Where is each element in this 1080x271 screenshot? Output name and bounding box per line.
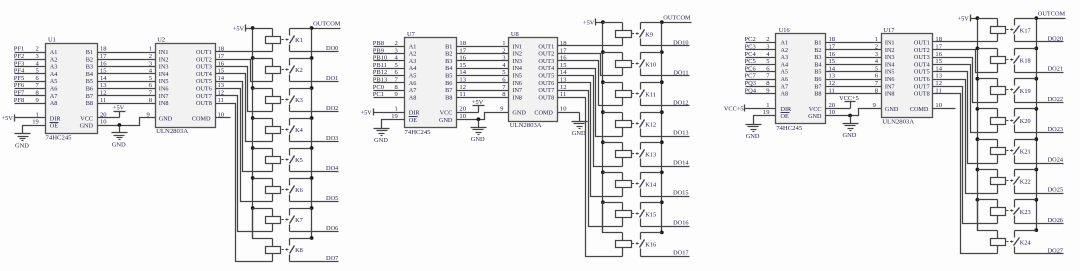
node OUTCOM bus tap K3	[310, 86, 314, 90]
wire U2 OUT3 pin 16 to relay K3 coil	[216, 60, 273, 111]
svg-text:GND: GND	[843, 132, 857, 139]
svg-text:OUT1: OUT1	[538, 43, 554, 50]
node OUTCOM bus tap K6	[310, 176, 314, 180]
wire U17 OUT8 pin 11 to relay K24 coil	[933, 87, 998, 253]
wire port PB12 to U7 pin 6 (A5)	[373, 69, 405, 76]
svg-text:B7: B7	[86, 93, 93, 100]
svg-text:PB10: PB10	[373, 55, 387, 62]
wire U7 B6 pin 13 to U8 IN6 pin 6	[457, 77, 509, 84]
svg-text:DIR: DIR	[50, 115, 62, 122]
wire U16 B7 pin 12 to U17 IN7 pin 7	[826, 80, 882, 87]
svg-text:K2: K2	[295, 67, 303, 74]
wire U8 COMD pin 10	[558, 106, 580, 113]
svg-text:A7: A7	[781, 83, 789, 90]
relay coil K22	[978, 170, 1006, 194]
node OUTCOM bus tap K14	[660, 170, 664, 174]
svg-text:12: 12	[100, 90, 107, 97]
svg-text:14: 14	[829, 65, 836, 72]
wire port PB13 to U7 pin 7 (A6)	[373, 77, 405, 84]
svg-text:14: 14	[218, 75, 225, 82]
node OUTCOM bus tap K20	[1034, 107, 1038, 111]
wire port PF8 to U1 pin 9 (A8)	[14, 97, 46, 104]
wire U1 B8 pin 11 to U2 IN8 pin 8	[98, 97, 156, 104]
svg-text:15: 15	[100, 68, 107, 75]
svg-text:U17: U17	[883, 27, 895, 34]
svg-text:2: 2	[766, 36, 769, 43]
svg-text:15: 15	[935, 58, 942, 65]
node OUTCOM bus tap K5	[310, 146, 314, 150]
wire U16 B3 pin 16 to U17 IN3 pin 3	[826, 51, 882, 58]
svg-text:B5: B5	[445, 73, 452, 80]
wire U1 B5 pin 14 to U2 IN5 pin 5	[98, 75, 156, 82]
wire output DO17	[641, 250, 690, 257]
wire port PB9 to U7 pin 3 (A2)	[373, 47, 405, 54]
svg-text:K8: K8	[295, 247, 303, 254]
svg-text:15: 15	[560, 62, 567, 69]
relay coil K2	[253, 59, 281, 82]
wire output DO11	[641, 69, 690, 76]
svg-text:OUTCOM: OUTCOM	[1038, 10, 1066, 17]
node OUTCOM bus tap K7	[310, 206, 314, 210]
svg-text:OUT5: OUT5	[196, 78, 212, 85]
svg-text:B5: B5	[86, 78, 93, 85]
svg-text:1: 1	[502, 40, 505, 47]
node OUTCOM bus tap K4	[310, 116, 314, 120]
svg-text:VCC: VCC	[809, 106, 822, 113]
wire OUTCOM bus vertical	[1036, 19, 1038, 231]
svg-text:2: 2	[395, 40, 398, 47]
svg-text:VCC+5: VCC+5	[839, 95, 859, 102]
svg-text:DIR: DIR	[781, 106, 793, 113]
svg-text:17: 17	[829, 44, 836, 51]
svg-text:IN8: IN8	[512, 94, 522, 101]
svg-text:B3: B3	[86, 64, 93, 71]
svg-text:B6: B6	[445, 80, 452, 87]
node OUTCOM bus tap K22	[1034, 168, 1038, 172]
wire U1 B7 pin 12 to U2 IN7 pin 7	[98, 90, 156, 97]
wire output DO25	[1015, 187, 1064, 194]
wire U16 B2 pin 17 to U17 IN2 pin 2	[826, 44, 882, 51]
relay coil K17	[978, 19, 1006, 42]
svg-text:GND: GND	[15, 143, 29, 150]
svg-text:VCC+5: VCC+5	[724, 106, 744, 113]
svg-text:U1: U1	[48, 37, 56, 44]
wire U17 OUT6 pin 13 to relay K22 coil	[933, 73, 998, 194]
svg-text:11: 11	[459, 91, 465, 98]
svg-text:PF2: PF2	[14, 53, 24, 60]
svg-text:DO11: DO11	[673, 69, 688, 76]
svg-text:12: 12	[459, 84, 466, 91]
wire output DO16	[641, 220, 690, 227]
node +5V bus tap K10	[601, 50, 605, 54]
svg-text:IN6: IN6	[159, 86, 169, 93]
svg-text:10: 10	[935, 102, 942, 109]
svg-text:PB8: PB8	[373, 40, 384, 47]
svg-text:A6: A6	[409, 80, 417, 87]
node OUTCOM bus tap K15	[660, 200, 664, 204]
svg-text:A8: A8	[50, 100, 58, 107]
svg-text:14: 14	[935, 65, 942, 72]
svg-text:DO0: DO0	[326, 45, 338, 52]
svg-text:B4: B4	[814, 61, 821, 68]
wire port PC4 to U16 pin 4 (A3)	[745, 51, 776, 58]
svg-text:1: 1	[36, 111, 39, 118]
wire U17 OUT7 pin 12 to relay K23 coil	[933, 80, 998, 224]
svg-text:DO26: DO26	[1048, 217, 1063, 224]
svg-text:OUT8: OUT8	[914, 91, 930, 98]
wire U2 OUT8 pin 11 to relay K8 coil	[216, 97, 273, 262]
wire U16 B4 pin 15 to U17 IN4 pin 4	[826, 58, 882, 65]
svg-text:IN5: IN5	[159, 78, 169, 85]
svg-text:B7: B7	[445, 87, 452, 94]
svg-text:B6: B6	[86, 86, 93, 93]
svg-text:K19: K19	[1020, 88, 1031, 95]
svg-text:15: 15	[218, 68, 225, 75]
wire U2 OUT5 pin 14 to relay K5 coil	[216, 75, 273, 172]
driver IC U8 ULN2803A	[509, 31, 558, 129]
svg-text:PB11: PB11	[373, 62, 387, 69]
wire U8 OUT4 pin 15 to relay K12 coil	[558, 62, 623, 137]
svg-text:PB9: PB9	[373, 47, 384, 54]
svg-text:K1: K1	[295, 37, 303, 44]
svg-text:10: 10	[100, 119, 107, 126]
node OUTCOM bus tap K1	[310, 26, 314, 30]
svg-text:IN1: IN1	[159, 49, 169, 56]
wire U17 OUT3 pin 16 to relay K19 coil	[933, 51, 998, 103]
svg-text:K14: K14	[645, 182, 657, 189]
ground at U7 GND pin	[471, 128, 487, 144]
svg-text:B1: B1	[86, 49, 93, 56]
wire U2 OUT6 pin 13 to relay K6 coil	[216, 82, 273, 201]
svg-text:OE: OE	[409, 117, 417, 124]
wire U8 OUT2 pin 17 to relay K10 coil	[558, 47, 623, 75]
svg-text:IN8: IN8	[885, 91, 895, 98]
svg-text:OE: OE	[50, 123, 58, 130]
svg-text:11: 11	[935, 87, 941, 94]
wire U1 B2 pin 17 to U2 IN2 pin 2	[98, 53, 156, 60]
wire U7 B2 pin 17 to U8 IN2 pin 2	[457, 47, 509, 54]
relay contact K11	[632, 83, 662, 106]
relay coil K12	[603, 113, 632, 137]
net label OUTCOM wire	[312, 20, 341, 28]
svg-text:12: 12	[560, 84, 567, 91]
wire output DO10	[641, 39, 690, 46]
relay contact K16	[632, 233, 662, 257]
svg-text:18: 18	[459, 40, 466, 47]
node +5V bus tap K14	[601, 170, 605, 174]
svg-text:DO15: DO15	[673, 190, 688, 197]
svg-text:GND: GND	[439, 117, 453, 124]
svg-text:IN7: IN7	[512, 87, 522, 94]
svg-text:15: 15	[829, 58, 836, 65]
svg-text:VCC: VCC	[80, 115, 93, 122]
relay contact K1	[282, 29, 312, 52]
svg-text:13: 13	[218, 82, 225, 89]
node +5V bus tap K18	[976, 47, 980, 51]
relay coil K16	[603, 203, 632, 257]
svg-text:IN6: IN6	[885, 76, 895, 83]
svg-text:74HC245: 74HC245	[46, 135, 73, 142]
svg-text:PB13: PB13	[373, 77, 387, 84]
svg-text:2: 2	[875, 44, 878, 51]
svg-text:A7: A7	[50, 93, 58, 100]
svg-text:K9: K9	[645, 31, 653, 38]
svg-text:A3: A3	[409, 58, 417, 65]
svg-text:ULN2803A: ULN2803A	[156, 128, 188, 135]
relay coil K18	[978, 49, 1006, 73]
svg-text:U16: U16	[779, 27, 790, 34]
wire port PQ3 to U16 pin 8 (A7)	[745, 80, 776, 87]
svg-text:IN2: IN2	[159, 56, 169, 63]
svg-text:10: 10	[829, 109, 836, 116]
svg-text:IN7: IN7	[159, 93, 169, 100]
wire port PQ4 to U16 pin 9 (A8)	[745, 87, 776, 94]
svg-text:OUT8: OUT8	[196, 100, 212, 107]
wire port PF7 to U1 pin 8 (A7)	[14, 90, 46, 97]
svg-text:K11: K11	[645, 91, 656, 98]
wire output DO7	[290, 255, 339, 262]
power VCC+5 to U16 DIR pin 1	[724, 102, 776, 113]
wire U8 COMD to ground	[579, 113, 581, 122]
wire U8 OUT7 pin 12 to relay K15 coil	[558, 84, 623, 227]
svg-text:K6: K6	[295, 187, 303, 194]
svg-text:B4: B4	[445, 65, 452, 72]
svg-text:2: 2	[149, 53, 152, 60]
svg-text:DIR: DIR	[409, 110, 421, 117]
relay coil K23	[978, 200, 1006, 224]
node +5V bus tap K22	[976, 168, 980, 172]
wire U7 B8 pin 11 to U8 IN8 pin 8	[457, 91, 509, 98]
svg-text:PC5: PC5	[745, 58, 756, 65]
wire port PF1 to U1 pin 2 (A1)	[14, 46, 46, 53]
svg-text:18: 18	[218, 46, 225, 53]
relay contact K23	[1006, 200, 1036, 224]
wire U16 B5 pin 14 to U17 IN5 pin 5	[826, 65, 882, 72]
wire +5V bus vertical	[977, 19, 979, 231]
wire port PF4 to U1 pin 5 (A4)	[14, 68, 46, 75]
svg-text:DO1: DO1	[326, 75, 338, 82]
svg-text:OUT3: OUT3	[196, 64, 212, 71]
svg-text:COMD: COMD	[534, 110, 553, 117]
svg-text:K13: K13	[645, 152, 656, 159]
svg-text:A1: A1	[781, 40, 789, 47]
node +5V bus tap K13	[601, 140, 605, 144]
wire output DO24	[1015, 156, 1064, 163]
svg-text:17: 17	[935, 44, 942, 51]
net label OUTCOM wire	[1037, 10, 1066, 18]
node +5V bus tap K5	[251, 146, 255, 150]
svg-text:IN3: IN3	[512, 58, 522, 65]
svg-text:A6: A6	[50, 86, 58, 93]
node GND junction	[477, 117, 481, 121]
relay coil K11	[603, 83, 632, 106]
node GND junction	[118, 123, 122, 127]
svg-text:A8: A8	[781, 91, 789, 98]
relay contact K9	[632, 23, 662, 46]
svg-text:15: 15	[459, 62, 466, 69]
power +5V at U16 VCC pin 20	[826, 95, 859, 109]
relay contact K17	[1006, 19, 1036, 42]
wire output DO12	[641, 99, 690, 106]
svg-text:A4: A4	[50, 71, 58, 78]
svg-text:OUT7: OUT7	[914, 83, 930, 90]
node +5V bus tap K3	[251, 86, 255, 90]
relay coil K21	[978, 140, 1006, 164]
svg-text:OUT6: OUT6	[914, 76, 930, 83]
wire port PC1 to U7 pin 9 (A8)	[373, 91, 405, 98]
svg-text:17: 17	[100, 53, 107, 60]
svg-text:DO16: DO16	[673, 220, 688, 227]
relay contact K5	[282, 149, 312, 172]
svg-text:PF8: PF8	[14, 97, 24, 104]
node OUTCOM bus tap K13	[660, 140, 664, 144]
svg-text:DO24: DO24	[1048, 156, 1064, 163]
svg-text:PC1: PC1	[373, 91, 384, 98]
wire port PC3 to U16 pin 3 (A2)	[745, 44, 776, 51]
svg-text:18: 18	[560, 40, 567, 47]
svg-text:DO21: DO21	[1048, 66, 1063, 73]
svg-text:OUT2: OUT2	[196, 56, 212, 63]
relay coil K10	[603, 53, 632, 76]
wire port PC2 to U16 pin 2 (A1)	[745, 36, 776, 43]
wire U16 B8 pin 11 to U17 IN8 pin 8	[826, 87, 882, 94]
svg-text:K16: K16	[645, 242, 656, 249]
svg-text:B5: B5	[814, 69, 821, 76]
svg-text:GND: GND	[808, 113, 822, 120]
svg-text:DO6: DO6	[326, 225, 338, 232]
svg-text:A7: A7	[409, 87, 417, 94]
svg-text:DO27: DO27	[1048, 247, 1063, 254]
svg-text:16: 16	[218, 60, 225, 67]
svg-text:DO7: DO7	[326, 255, 338, 262]
svg-text:IN1: IN1	[512, 43, 522, 50]
svg-text:DO14: DO14	[673, 160, 689, 167]
svg-text:11: 11	[829, 87, 835, 94]
svg-text:13: 13	[829, 73, 836, 80]
ground between U7 and U8	[478, 120, 480, 128]
driver IC U17 ULN2803A	[882, 27, 933, 125]
svg-text:10: 10	[560, 106, 567, 113]
node OUTCOM bus tap K9	[660, 20, 664, 24]
wire U8 OUT3 pin 16 to relay K11 coil	[558, 55, 623, 106]
svg-text:DO25: DO25	[1048, 187, 1063, 194]
svg-text:DO20: DO20	[1048, 35, 1063, 42]
svg-text:B3: B3	[814, 54, 821, 61]
svg-text:IN2: IN2	[885, 47, 895, 54]
svg-text:16: 16	[560, 55, 567, 62]
node +5V bus tap K23	[976, 198, 980, 202]
svg-text:19: 19	[391, 113, 398, 120]
svg-text:K17: K17	[1020, 27, 1031, 34]
svg-text:DO10: DO10	[673, 39, 688, 46]
svg-text:A1: A1	[409, 43, 417, 50]
wire U1 B4 pin 15 to U2 IN4 pin 4	[98, 68, 156, 75]
svg-text:U8: U8	[511, 31, 519, 38]
wire +5V bus vertical	[252, 29, 254, 239]
svg-text:+5V: +5V	[583, 19, 595, 26]
buffer IC U7 74HC245	[405, 31, 457, 136]
svg-text:18: 18	[829, 36, 836, 43]
ground at U16 OE	[746, 125, 762, 141]
svg-text:17: 17	[459, 47, 466, 54]
svg-text:2: 2	[502, 47, 505, 54]
svg-text:GND: GND	[80, 123, 94, 130]
buffer IC U16 74HC245	[776, 27, 826, 132]
svg-text:16: 16	[459, 55, 466, 62]
svg-text:GND: GND	[572, 130, 586, 137]
svg-text:GND: GND	[885, 106, 899, 113]
wire port PC5 to U16 pin 5 (A4)	[745, 58, 776, 65]
svg-text:U7: U7	[407, 31, 416, 38]
wire output DO27	[1015, 247, 1064, 254]
relay contact K6	[282, 179, 312, 202]
svg-text:OUT4: OUT4	[196, 71, 212, 78]
svg-text:K4: K4	[295, 127, 304, 134]
svg-text:PQ3: PQ3	[745, 80, 757, 87]
node +5V bus tap K17	[976, 16, 980, 20]
relay coil K7	[253, 209, 281, 232]
ground at U8 COMD	[572, 122, 588, 137]
wire U7 OE pin 19 to ground	[382, 113, 405, 129]
svg-text:OUT8: OUT8	[538, 94, 554, 101]
svg-text:PC2: PC2	[745, 36, 756, 43]
svg-text:VCC: VCC	[440, 110, 453, 117]
node +5V bus tap K1	[251, 26, 255, 30]
relay coil K6	[253, 179, 281, 202]
buffer IC U1 74HC245	[46, 37, 98, 142]
svg-text:10: 10	[459, 113, 466, 120]
svg-text:B8: B8	[814, 91, 821, 98]
wire U7 B7 pin 12 to U8 IN7 pin 7	[457, 84, 509, 91]
svg-text:A8: A8	[409, 94, 417, 101]
svg-text:B1: B1	[814, 40, 821, 47]
power +5V rail for relays K9-K16	[583, 19, 602, 27]
relay contact K14	[632, 173, 662, 197]
svg-text:PB12: PB12	[373, 69, 387, 76]
power +5V rail for relays K1-K8	[233, 25, 253, 33]
svg-text:18: 18	[935, 36, 942, 43]
svg-text:K3: K3	[295, 97, 303, 104]
svg-text:ULN2803A: ULN2803A	[510, 122, 542, 129]
svg-text:OUT4: OUT4	[538, 65, 554, 72]
svg-text:13: 13	[935, 73, 942, 80]
svg-text:GND: GND	[471, 136, 485, 143]
wire U8 OUT1 pin 18 to relay K9 coil	[558, 40, 623, 47]
svg-text:B2: B2	[445, 51, 452, 58]
wire port PB8 to U7 pin 2 (A1)	[373, 40, 405, 47]
relay coil K1	[253, 29, 281, 52]
svg-text:10: 10	[218, 111, 225, 118]
svg-text:74HC245: 74HC245	[405, 129, 432, 136]
wire output DO4	[290, 165, 340, 172]
relay coil K9	[603, 23, 632, 46]
wire output DO2	[290, 105, 339, 112]
svg-text:K18: K18	[1020, 58, 1031, 65]
wire +5V bus vertical	[602, 23, 604, 233]
node OUTCOM bus tap K16	[660, 231, 664, 235]
relay coil K19	[978, 79, 1006, 103]
svg-text:A2: A2	[781, 47, 789, 54]
svg-text:ULN2803A: ULN2803A	[882, 118, 914, 125]
node +5V bus tap K11	[601, 80, 605, 84]
svg-text:16: 16	[935, 51, 942, 58]
svg-text:OE: OE	[781, 113, 789, 120]
svg-text:OUT6: OUT6	[196, 86, 212, 93]
svg-text:OUT2: OUT2	[914, 47, 930, 54]
svg-text:DO17: DO17	[673, 250, 688, 257]
svg-text:1: 1	[766, 102, 769, 109]
wire output DO5	[290, 195, 339, 202]
